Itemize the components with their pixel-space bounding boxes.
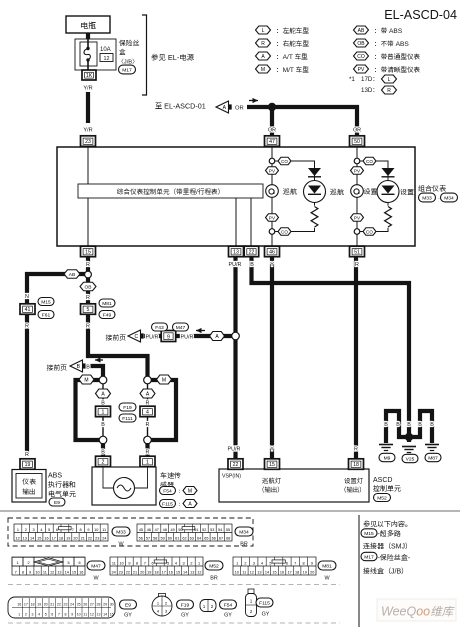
legend marker M M/T	[256, 65, 271, 73]
connector id M87	[425, 453, 441, 461]
svg-text:OB: OB	[85, 284, 92, 290]
junction PU/R	[232, 332, 240, 340]
svg-text:13: 13	[57, 570, 61, 574]
marker CO top set	[363, 157, 376, 165]
wire AB branch to ABS unit	[27, 274, 85, 454]
svg-text:GY: GY	[224, 613, 232, 619]
connector id E9	[49, 498, 65, 506]
svg-text:29: 29	[103, 602, 107, 606]
svg-text:22: 22	[126, 570, 130, 574]
svg-text:Y: Y	[270, 262, 274, 268]
legend marker CO conventional meter	[354, 52, 369, 60]
vehicle speed sensor box	[92, 467, 156, 505]
svg-text:OR: OR	[268, 128, 276, 134]
svg-text:65: 65	[204, 536, 208, 540]
connector id F54 with M	[160, 487, 176, 495]
svg-text:28: 28	[97, 602, 101, 606]
svg-text:B: B	[101, 422, 105, 428]
svg-text:19: 19	[303, 570, 307, 574]
resistor cruise	[310, 206, 319, 228]
svg-text:电瓶: 电瓶	[80, 22, 96, 31]
svg-text:8: 8	[80, 528, 82, 532]
diode set	[382, 168, 395, 177]
svg-text:23: 23	[85, 139, 91, 145]
svg-text:10: 10	[35, 570, 39, 574]
svg-text:12: 12	[15, 536, 19, 540]
svg-text:巡航: 巡航	[283, 187, 298, 196]
svg-text:49: 49	[170, 528, 174, 532]
connector face M52	[110, 557, 203, 575]
svg-text:8: 8	[303, 561, 305, 565]
svg-text:30: 30	[110, 602, 114, 606]
flow arrow left at B elbow	[95, 357, 103, 362]
svg-text:41: 41	[25, 307, 31, 313]
ground bracket left	[386, 411, 406, 443]
connector face F115	[246, 589, 257, 617]
connector 41	[20, 304, 35, 315]
svg-text:AB: AB	[358, 28, 365, 34]
svg-text:综合仪表控制单元（带里程/行程表）: 综合仪表控制单元（带里程/行程表）	[117, 188, 224, 196]
svg-text:F111: F111	[122, 416, 133, 422]
legend marker A A/T	[256, 52, 271, 60]
svg-text:12: 12	[50, 570, 54, 574]
connector id M34	[441, 193, 458, 202]
connector 13	[229, 246, 244, 257]
svg-text:B: B	[430, 422, 434, 428]
connector id F43	[152, 323, 168, 331]
junction bottom right	[144, 436, 152, 444]
connector 19	[20, 459, 35, 470]
connector face E9	[8, 597, 115, 618]
connector id M81	[99, 299, 115, 307]
svg-text:M17: M17	[122, 67, 132, 73]
svg-text:11: 11	[83, 612, 87, 616]
svg-text:E9: E9	[54, 500, 60, 506]
svg-text:F115: F115	[259, 600, 270, 606]
svg-text:58: 58	[153, 536, 157, 540]
svg-text:GY: GY	[262, 612, 270, 618]
connector 46	[265, 246, 280, 257]
svg-text:M47: M47	[176, 325, 186, 331]
svg-text:B: B	[384, 422, 388, 428]
ground bracket right	[412, 411, 432, 443]
legend marker L left-hand-drive	[256, 26, 271, 34]
svg-text:5: 5	[269, 561, 271, 565]
svg-text:（输出）: （输出）	[258, 486, 284, 494]
svg-text:15: 15	[110, 612, 114, 616]
watermark WeeQoo	[377, 599, 456, 621]
connector id E9 face	[120, 600, 137, 609]
wire R to sensor right	[145, 443, 149, 457]
svg-text:VSP(IN): VSP(IN)	[222, 474, 241, 480]
svg-text:11: 11	[112, 561, 116, 565]
marker AB	[64, 270, 80, 279]
svg-text:M: M	[261, 67, 265, 73]
junction dot ground splice	[405, 433, 413, 441]
svg-text:3: 3	[32, 612, 34, 616]
svg-text:连接器（SMJ）: 连接器（SMJ）	[363, 543, 412, 551]
svg-text:R: R	[146, 450, 150, 456]
connector 50	[350, 136, 365, 147]
svg-text:11: 11	[102, 528, 106, 532]
wire inside box bar to 13	[235, 198, 237, 247]
connector 15 ASCD	[265, 459, 280, 470]
svg-text:输出: 输出	[22, 488, 36, 496]
svg-text:4: 4	[175, 561, 177, 565]
svg-text:M33: M33	[116, 529, 126, 535]
svg-text:22: 22	[88, 536, 92, 540]
marker OB	[80, 282, 96, 291]
svg-text:14: 14	[265, 570, 269, 574]
separator line	[0, 510, 460, 512]
marker CO bottom cruise	[278, 228, 291, 236]
battery 电瓶	[66, 16, 110, 33]
junction top cruise	[269, 158, 275, 164]
page link triangle B	[70, 360, 86, 372]
connector id M33	[419, 193, 436, 202]
reference M15 超多路	[361, 529, 377, 537]
svg-text:15: 15	[269, 462, 275, 468]
svg-text:66: 66	[212, 536, 216, 540]
svg-text:设置: 设置	[364, 187, 378, 196]
svg-text:F43: F43	[155, 325, 164, 331]
svg-text:18: 18	[59, 536, 63, 540]
svg-text:11: 11	[242, 570, 246, 574]
svg-text:2: 2	[190, 561, 192, 565]
svg-text:R: R	[146, 422, 150, 428]
legend marker R right-hand-drive	[256, 39, 271, 47]
svg-text:24: 24	[102, 536, 106, 540]
svg-text:CO: CO	[366, 229, 373, 234]
wire B to sensor left	[101, 443, 105, 457]
svg-text:M34: M34	[239, 529, 249, 535]
svg-text:GY: GY	[181, 613, 189, 619]
connector 18 ASCD	[349, 459, 364, 470]
marker M bypass left	[79, 375, 94, 384]
svg-text:车速传: 车速传	[160, 471, 181, 480]
svg-text:执行器和: 执行器和	[48, 480, 76, 489]
svg-text:16: 16	[17, 602, 21, 606]
connector 1K below fuse box	[82, 70, 96, 80]
page link triangle C	[128, 330, 144, 342]
junction top right	[144, 376, 152, 384]
svg-text:45: 45	[139, 528, 143, 532]
svg-text:3: 3	[253, 561, 255, 565]
svg-text:4: 4	[38, 612, 40, 616]
svg-text:23: 23	[64, 602, 68, 606]
dashed box row1	[8, 518, 253, 546]
wire M/T bypass loop left	[76, 380, 104, 440]
svg-text:52: 52	[202, 528, 206, 532]
svg-text:B: B	[396, 422, 400, 428]
svg-text:47: 47	[269, 139, 275, 145]
svg-text:14: 14	[65, 570, 69, 574]
svg-text:E9: E9	[125, 602, 131, 608]
svg-text:B: B	[407, 422, 411, 428]
connector id M34 face	[235, 527, 253, 536]
resistor set	[383, 206, 392, 228]
ground symbol M9	[379, 445, 393, 451]
svg-text:控制单元: 控制单元	[373, 485, 401, 493]
svg-text:13: 13	[257, 570, 261, 574]
svg-text:16: 16	[280, 570, 284, 574]
svg-text:组合仪表: 组合仪表	[418, 184, 446, 193]
svg-text:巡航: 巡航	[330, 188, 345, 197]
ABS actuator box 仪表输出	[12, 470, 46, 503]
svg-text:：带普通型仪表: ：带普通型仪表	[374, 53, 420, 61]
svg-text:12: 12	[104, 56, 110, 62]
svg-text:1: 1	[146, 460, 149, 466]
svg-text:68: 68	[226, 536, 230, 540]
svg-text:PU/R: PU/R	[181, 335, 194, 341]
svg-text:F49: F49	[103, 312, 112, 318]
svg-text:15: 15	[85, 250, 91, 256]
svg-text:22: 22	[233, 462, 239, 468]
svg-text:M15: M15	[364, 531, 374, 537]
svg-text:PU/R: PU/R	[228, 447, 241, 453]
svg-text:PV: PV	[269, 215, 276, 220]
connector face M34	[137, 524, 232, 541]
svg-text:62: 62	[182, 536, 186, 540]
reference M17 保险丝盒	[361, 552, 377, 560]
svg-text:4: 4	[40, 528, 42, 532]
svg-text:14: 14	[30, 536, 34, 540]
svg-text:6: 6	[286, 561, 288, 565]
svg-text:（输出）: （输出）	[340, 486, 366, 494]
svg-text:1: 1	[102, 410, 105, 416]
svg-text:M81: M81	[102, 301, 112, 307]
connector id M33 face	[112, 527, 130, 536]
svg-text:R: R	[86, 295, 90, 301]
junction top left	[99, 376, 107, 384]
svg-text:10: 10	[235, 570, 239, 574]
svg-text:18: 18	[295, 570, 299, 574]
svg-text:6: 6	[51, 612, 53, 616]
svg-text:9: 9	[167, 334, 170, 340]
svg-text:-保险丝盒-: -保险丝盒-	[378, 553, 411, 562]
wire PU/R cross link to previous page	[144, 334, 232, 338]
svg-text:仪表: 仪表	[22, 478, 36, 486]
svg-text:24: 24	[70, 602, 74, 606]
svg-text:OB: OB	[357, 41, 365, 47]
svg-text:6: 6	[78, 561, 80, 565]
connector 15	[81, 246, 96, 257]
wire main R column through 5	[88, 278, 148, 377]
junction bottom cruise	[269, 229, 275, 235]
marker PV top cruise	[266, 167, 279, 175]
svg-text:9: 9	[128, 561, 130, 565]
ground symbol M87	[425, 445, 439, 451]
svg-text:20: 20	[73, 536, 77, 540]
connector id M15	[38, 298, 54, 306]
connector id M81 face	[318, 561, 336, 570]
svg-text:Y/R: Y/R	[83, 86, 92, 92]
svg-text:7: 7	[58, 612, 60, 616]
junction bottom set	[354, 229, 360, 235]
svg-text:57: 57	[146, 536, 150, 540]
connector id F115 with A	[160, 500, 176, 508]
svg-text:：: ：	[178, 502, 183, 508]
svg-text:M34: M34	[444, 195, 454, 201]
svg-text:67: 67	[219, 536, 223, 540]
svg-text:19: 19	[147, 570, 151, 574]
svg-text:3: 3	[183, 561, 185, 565]
wire B from 22 to ground bus	[252, 257, 410, 442]
svg-text:12: 12	[90, 612, 94, 616]
svg-text:盒: 盒	[119, 49, 126, 57]
svg-text:·: ·	[438, 196, 440, 202]
svg-text:13: 13	[23, 536, 27, 540]
svg-text:9: 9	[29, 570, 31, 574]
svg-text:5: 5	[45, 612, 47, 616]
svg-text:参见以下内容。: 参见以下内容。	[363, 520, 412, 529]
wire lamp main line set	[356, 146, 358, 247]
svg-text:ASCD: ASCD	[373, 477, 392, 484]
connector id F111	[119, 414, 136, 422]
svg-text:电气单元: 电气单元	[48, 491, 76, 499]
svg-text:：M/T 车型: ：M/T 车型	[276, 66, 309, 74]
wire R from 51 to ASCD 18	[354, 257, 358, 459]
svg-text:R: R	[86, 324, 90, 330]
svg-text:16: 16	[169, 570, 173, 574]
svg-text:M: M	[188, 488, 192, 494]
connector id F61	[38, 311, 54, 319]
svg-text:64: 64	[197, 536, 201, 540]
svg-text:12: 12	[197, 570, 201, 574]
svg-text:OR: OR	[235, 106, 244, 112]
marker PV bottom cruise	[266, 214, 279, 222]
svg-text:17: 17	[24, 602, 28, 606]
connector 23	[81, 136, 96, 147]
ground symbol V25	[402, 447, 416, 453]
svg-text:9: 9	[71, 612, 73, 616]
svg-text:19: 19	[37, 602, 41, 606]
svg-text:13: 13	[190, 570, 194, 574]
svg-text:巡航灯: 巡航灯	[262, 477, 282, 485]
svg-text:F54: F54	[163, 488, 172, 494]
svg-text:M: M	[84, 377, 88, 383]
svg-text:1K: 1K	[86, 73, 93, 79]
svg-text:M52: M52	[209, 563, 219, 569]
svg-text:V25: V25	[406, 456, 415, 462]
svg-text:L: L	[262, 28, 265, 34]
page link triangle A	[216, 101, 232, 113]
svg-text:5: 5	[67, 561, 69, 565]
svg-text:63: 63	[190, 536, 194, 540]
svg-text:13D：: 13D：	[361, 87, 379, 94]
svg-text:20: 20	[310, 570, 314, 574]
svg-text:27: 27	[90, 602, 94, 606]
svg-text:R: R	[25, 452, 29, 458]
svg-text:保险丝: 保险丝	[119, 39, 140, 48]
svg-text:56: 56	[139, 536, 143, 540]
svg-text:15: 15	[72, 570, 76, 574]
svg-text:PU/R: PU/R	[146, 335, 159, 341]
reference bracket 参见 EL-电源	[142, 15, 147, 95]
svg-text:7: 7	[144, 561, 146, 565]
svg-text:PV: PV	[354, 215, 361, 220]
wire A/T path left	[102, 380, 104, 440]
connector id M52 face	[205, 561, 223, 570]
svg-text:设置: 设置	[400, 188, 414, 197]
svg-text:8: 8	[136, 561, 138, 565]
svg-text:接前页: 接前页	[106, 334, 126, 342]
svg-text:M81: M81	[322, 563, 332, 569]
svg-text:PV: PV	[354, 168, 361, 173]
svg-text:F115: F115	[162, 501, 173, 507]
wire B from previous page	[91, 366, 104, 377]
svg-text:22: 22	[57, 602, 61, 606]
marker A left	[96, 389, 111, 398]
svg-text:23: 23	[95, 536, 99, 540]
svg-text:48: 48	[163, 528, 167, 532]
svg-text:N: N	[25, 294, 29, 300]
wire inside box 23 to bar	[87, 146, 89, 184]
svg-text:21: 21	[81, 536, 85, 540]
svg-text:R: R	[354, 447, 358, 453]
reference block divider	[358, 515, 360, 627]
connector 4 mid right	[140, 406, 155, 417]
wire Y/R fuse to connector 23	[86, 92, 90, 123]
svg-text:：带 ABS: ：带 ABS	[374, 28, 403, 35]
svg-text:17: 17	[287, 570, 291, 574]
svg-text:WeeQoo维库: WeeQoo维库	[381, 605, 456, 619]
connector 2 sensor left	[96, 456, 111, 467]
svg-text:1: 1	[18, 612, 20, 616]
svg-text:54: 54	[218, 528, 222, 532]
marker PV bottom set	[351, 214, 364, 222]
svg-text:OR: OR	[353, 128, 361, 134]
svg-text:22: 22	[249, 250, 255, 256]
svg-text:11: 11	[43, 570, 47, 574]
svg-text:16: 16	[44, 536, 48, 540]
svg-text:：带清晰型仪表: ：带清晰型仪表	[374, 66, 420, 74]
svg-text:*1: *1	[349, 76, 355, 83]
junction dot OR bus	[268, 103, 276, 111]
svg-text:至 EL-ASCD-01: 至 EL-ASCD-01	[155, 102, 206, 111]
wire PU/R from 13 to ASCD 22	[233, 257, 237, 459]
svg-text:PU/R: PU/R	[229, 262, 242, 268]
connector 9	[161, 331, 176, 342]
svg-text:21: 21	[133, 570, 137, 574]
svg-text:：不带 ABS: ：不带 ABS	[374, 41, 409, 48]
sensor symbol circle with sine	[114, 478, 135, 499]
svg-text:10: 10	[77, 612, 81, 616]
fuse box J/B outline	[75, 39, 116, 70]
svg-text:17: 17	[162, 570, 166, 574]
svg-text:M15: M15	[41, 299, 51, 305]
svg-text:2: 2	[27, 561, 29, 565]
svg-text:18: 18	[353, 462, 359, 468]
svg-text:B: B	[101, 450, 105, 456]
meter control unit bar 综合仪表控制单元	[78, 184, 263, 198]
svg-text:2: 2	[102, 460, 105, 466]
svg-text:PV: PV	[269, 168, 276, 173]
connector 5	[81, 304, 96, 315]
svg-text:R: R	[261, 41, 265, 47]
dashed line below row2	[8, 584, 340, 586]
svg-text:20: 20	[140, 570, 144, 574]
marker A hexagon on cross link	[210, 332, 225, 341]
svg-text:GY: GY	[124, 613, 132, 619]
svg-text:M9: M9	[384, 455, 391, 461]
svg-text:CO: CO	[357, 54, 365, 60]
connector 22	[244, 246, 259, 257]
svg-text:8: 8	[65, 612, 67, 616]
svg-text:18: 18	[31, 602, 35, 606]
svg-text:15: 15	[176, 570, 180, 574]
svg-text:B: B	[86, 365, 90, 371]
